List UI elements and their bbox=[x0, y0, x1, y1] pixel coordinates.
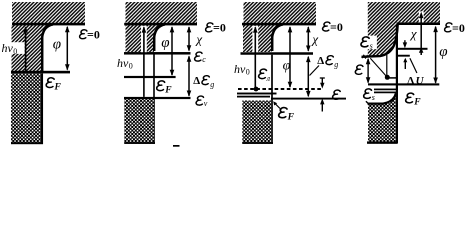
svg-text:c: c bbox=[202, 55, 206, 64]
svg-text:=0: =0 bbox=[213, 21, 226, 35]
svg-text:F: F bbox=[413, 98, 421, 108]
svg-text:=0: =0 bbox=[87, 27, 100, 41]
svg-text:0: 0 bbox=[246, 68, 250, 77]
svg-text:v: v bbox=[204, 99, 208, 108]
svg-text:χ: χ bbox=[310, 32, 318, 47]
svg-text:χ: χ bbox=[194, 32, 202, 47]
svg-text:=0: =0 bbox=[330, 20, 343, 34]
svg-text:hν: hν bbox=[117, 56, 129, 70]
svg-text:л: л bbox=[266, 74, 271, 83]
svg-text:Δ: Δ bbox=[193, 75, 200, 87]
svg-text:φ: φ bbox=[283, 59, 291, 74]
svg-text:g: g bbox=[334, 60, 338, 69]
svg-text:=0: =0 bbox=[452, 21, 465, 35]
svg-text:hν: hν bbox=[2, 41, 14, 55]
svg-text:F: F bbox=[54, 83, 62, 93]
svg-text:s: s bbox=[370, 42, 373, 51]
svg-text:Δ: Δ bbox=[317, 55, 324, 67]
svg-text:φ: φ bbox=[53, 36, 61, 52]
svg-text:g: g bbox=[210, 80, 214, 89]
svg-text:Δ: Δ bbox=[407, 75, 414, 87]
svg-text:F: F bbox=[164, 86, 172, 96]
svg-text:0: 0 bbox=[129, 62, 133, 71]
svg-text:s: s bbox=[372, 93, 375, 102]
svg-text:F: F bbox=[287, 113, 295, 123]
svg-text:U: U bbox=[416, 75, 425, 87]
svg-text:hν: hν bbox=[234, 62, 246, 76]
svg-text:0: 0 bbox=[13, 47, 17, 56]
svg-text:χ: χ bbox=[409, 26, 417, 41]
svg-text:φ: φ bbox=[439, 44, 447, 60]
svg-text:φ: φ bbox=[161, 35, 169, 51]
